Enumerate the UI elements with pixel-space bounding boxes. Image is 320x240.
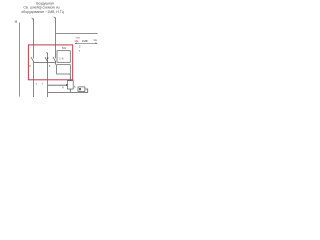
highlight box (red) — [28, 45, 72, 80]
dimension arrow right — [95, 43, 97, 44]
appliance mark — [79, 88, 81, 90]
breaker SA2 diagonal — [45, 57, 48, 62]
switch gap W2 — [33, 58, 34, 61]
dimension line — [75, 43, 97, 45]
wire loop up — [87, 89, 89, 93]
svg-text:Мв,: Мв, — [75, 39, 80, 43]
breaker SA2 dot — [47, 57, 48, 59]
wire A horizontal to right edge — [56, 33, 98, 35]
wire socket horizontal — [48, 84, 68, 86]
meter box — [57, 51, 70, 63]
breaker SA1 diagonal — [31, 57, 34, 62]
wire meter down — [69, 74, 71, 92]
tick at wire 1 top — [32, 18, 34, 20]
svg-text:Н: Н — [15, 20, 18, 24]
terminal box — [57, 65, 71, 74]
wire loop left — [85, 88, 88, 90]
svg-text:1МФ: 1МФ — [82, 39, 88, 43]
tick at wire A top — [54, 17, 56, 19]
dimension arrow left — [75, 43, 77, 44]
appliance box — [78, 87, 85, 92]
svg-text:С-В: С-В — [59, 57, 64, 61]
switch gap W3 — [55, 58, 56, 61]
svg-text:М1: М1 — [62, 46, 66, 50]
breaker SA3 diagonal — [53, 57, 56, 62]
wire N vertical — [19, 23, 21, 97]
wire group 2 top hook — [46, 52, 48, 53]
svg-text:оборудование ~1МВ, Н Гц: оборудование ~1МВ, Н Гц — [21, 10, 64, 14]
fuse box — [67, 81, 73, 89]
bus wire horizontal — [34, 61, 56, 63]
wire bottom horizontal — [48, 91, 88, 93]
terminal dot — [66, 84, 67, 86]
wire phase A vertical — [55, 18, 57, 65]
wire phase 1 vertical — [33, 19, 35, 98]
wire group 2 vertical — [47, 53, 49, 97]
